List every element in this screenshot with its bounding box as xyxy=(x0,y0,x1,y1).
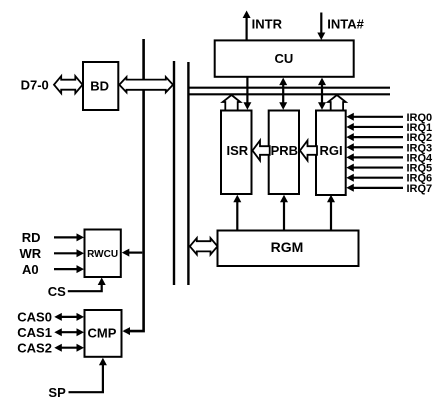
wire INTR output xyxy=(246,17,248,40)
svg-text:RD: RD xyxy=(22,230,41,245)
wire vertical data-bus line B xyxy=(173,61,175,285)
svg-text:CAS0: CAS0 xyxy=(17,310,52,325)
wire SP input xyxy=(69,364,103,392)
wire CAS1 bidirectional xyxy=(60,331,78,333)
svg-text:ISR: ISR xyxy=(226,143,248,158)
wire IRQ5 input xyxy=(352,166,403,168)
svg-text:WR: WR xyxy=(19,246,41,261)
wire vertical data-bus line C xyxy=(187,62,189,285)
wire IRQ7 input xyxy=(352,187,403,189)
wire IRQ1 input xyxy=(352,126,403,128)
wire CS input xyxy=(68,283,102,291)
hollow arrow PRB to ISR xyxy=(253,141,270,161)
svg-text:INTR: INTR xyxy=(252,16,283,31)
svg-text:RGI: RGI xyxy=(319,143,342,158)
hollow arrow bus to RGM xyxy=(190,238,218,254)
wire CU to RGI (double arrow) xyxy=(321,82,323,104)
box ISR in-service register xyxy=(221,111,252,195)
svg-text:CAS2: CAS2 xyxy=(17,340,52,355)
hollow arrow RGI to PRB xyxy=(300,141,317,161)
hollow arrow RGI up to bus xyxy=(328,95,346,112)
wire bus to RWCU (arrow) xyxy=(128,252,142,254)
box PRB priority resolver xyxy=(269,111,299,195)
wire bus to CMP arrowhead xyxy=(123,327,131,335)
svg-text:IRQ7: IRQ7 xyxy=(407,183,433,195)
wire CAS0 bidirectional xyxy=(60,316,78,318)
wire IRQ2 input xyxy=(352,136,403,138)
hollow arrow BD to internal bus xyxy=(119,77,173,92)
wire RGM to RGI (up arrow) xyxy=(330,200,332,231)
svg-text:RWCU: RWCU xyxy=(87,249,118,260)
svg-text:RGM: RGM xyxy=(271,239,304,255)
svg-text:SP: SP xyxy=(48,385,66,400)
box RWCU read-write control unit xyxy=(85,230,121,278)
svg-text:PRB: PRB xyxy=(271,143,298,158)
svg-text:BD: BD xyxy=(90,79,109,94)
svg-text:CU: CU xyxy=(275,51,294,66)
box BD bus driver xyxy=(83,62,118,110)
wire CU to PRB (double arrow) xyxy=(282,82,284,104)
wire RD input xyxy=(54,236,78,238)
wire WR input xyxy=(54,252,78,254)
wire IRQ4 input xyxy=(352,156,403,158)
svg-text:CAS1: CAS1 xyxy=(17,325,52,340)
wire IRQ3 input xyxy=(352,146,403,148)
wire CAS2 bidirectional xyxy=(60,347,78,349)
wire horizontal bus lower xyxy=(188,93,390,95)
wire CU to ISR (down arrow) xyxy=(246,77,248,103)
wire vertical internal-bus line A xyxy=(125,39,144,331)
svg-text:A0: A0 xyxy=(22,262,39,277)
box RGI interrupt request register xyxy=(316,111,346,196)
wire IRQ0 input xyxy=(352,116,403,118)
box CMP cascade comparator xyxy=(85,310,122,357)
box RGM mask register xyxy=(218,231,359,267)
wire horizontal bus upper xyxy=(188,87,390,89)
wire RGM to ISR (up arrow) xyxy=(236,200,238,231)
svg-text:INTA#: INTA# xyxy=(327,17,364,32)
wire A0 input xyxy=(54,268,78,270)
box CU control unit xyxy=(215,40,354,76)
svg-text:D7-0: D7-0 xyxy=(21,78,49,93)
hollow arrow ISR up to bus xyxy=(223,95,241,112)
wire RGM to PRB (up arrow) xyxy=(283,200,285,231)
wire INTA# input xyxy=(320,13,322,35)
hollow arrow D7-0 to BD xyxy=(54,76,83,93)
svg-text:CS: CS xyxy=(48,284,66,299)
svg-text:CMP: CMP xyxy=(88,326,117,341)
wire IRQ6 input xyxy=(352,177,403,179)
